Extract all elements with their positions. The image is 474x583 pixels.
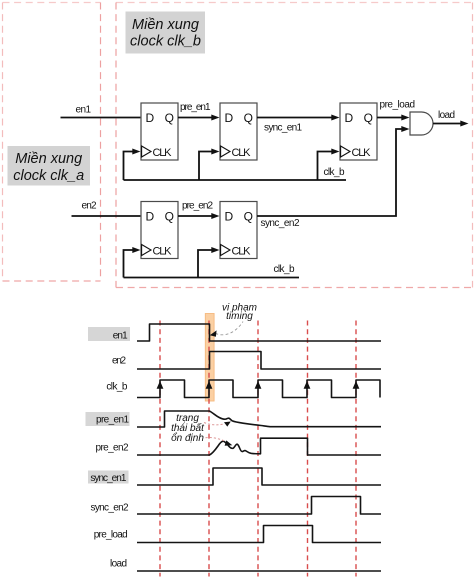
svg-text:ổn định: ổn định [171, 432, 204, 444]
svg-text:pre_en1: pre_en1 [96, 414, 129, 425]
svg-text:clk_b: clk_b [324, 167, 345, 178]
wire sync_en1 FF2.Q to FF3.D [257, 115, 340, 121]
annotation arrow to en1 violation [210, 322, 243, 337]
D flip-flop FF1 [141, 103, 178, 160]
timing waveform en1 [137, 324, 381, 341]
timing waveform load [137, 570, 381, 572]
svg-text:clk_b: clk_b [274, 264, 295, 275]
timing grid dashed line 3 [257, 321, 259, 577]
clock wire clk_b row2 to FF4.CLK [124, 247, 141, 278]
wire pre_en2 FF4.Q to FF5.D [178, 213, 220, 219]
svg-text:Miền xung: Miền xung [132, 17, 199, 33]
annotation vi pham timing [222, 302, 257, 322]
clock bus clk_b row1 [124, 179, 347, 181]
clk_b rising edge arrow 5 [353, 381, 360, 389]
svg-text:en2: en2 [82, 201, 97, 212]
timing grid dashed line 1 [159, 321, 161, 577]
clock domain region box clk_b (dashed) [116, 3, 473, 288]
timing waveform sync_en1 [137, 468, 381, 485]
timing waveform clk_b [137, 380, 380, 398]
svg-text:pre_load: pre_load [380, 100, 416, 111]
svg-text:load: load [110, 559, 127, 570]
wire pre_en1 FF1.Q to FF2.D [178, 115, 220, 121]
svg-text:clock clk_a: clock clk_a [13, 168, 84, 184]
label: Mien xung clock clk_b [126, 12, 206, 54]
timing label bg en1 [88, 327, 130, 341]
svg-text:en1: en1 [113, 330, 128, 341]
svg-text:timing: timing [226, 311, 253, 322]
svg-text:sync_en2: sync_en2 [261, 218, 300, 229]
wire en1 into FF1.D [61, 117, 141, 119]
timing violation highlight bar [205, 314, 214, 402]
clk_b rising edge arrow 3 [255, 381, 262, 389]
D flip-flop FF5 [220, 202, 257, 259]
svg-text:Miền xung: Miền xung [15, 151, 82, 167]
wire pre_load FF3.Q to AND gate [377, 115, 410, 121]
svg-text:clock clk_b: clock clk_b [130, 34, 201, 50]
clock wire clk_b row1 to FF1.CLK [124, 149, 141, 181]
svg-text:pre_en1: pre_en1 [180, 102, 211, 113]
label: Mien xung clock clk_a [8, 146, 91, 186]
annotation arrow to pre_en2 metastable region [206, 437, 233, 445]
timing label bg pre_en1 [86, 412, 130, 426]
D flip-flop FF4 [141, 202, 178, 259]
svg-text:clk_b: clk_b [106, 381, 127, 392]
timing grid dashed line 5 [355, 321, 357, 577]
svg-text:sync_en1: sync_en1 [90, 473, 126, 484]
timing waveform sync_en2 [137, 497, 381, 515]
svg-text:en1: en1 [76, 105, 92, 116]
clock wire clk_b row1 to FF3.CLK [318, 149, 340, 181]
clk_b rising edge arrow 2 [206, 381, 213, 389]
svg-text:en2: en2 [112, 355, 126, 366]
timing waveform en2 [137, 352, 381, 370]
timing grid dashed line 4 [307, 321, 309, 577]
and-gate U1 [410, 112, 433, 135]
timing waveform pre_en1 (metastable decay) [137, 411, 381, 427]
wire load output of AND gate [433, 121, 469, 127]
wire en2 into FF4.D [72, 215, 141, 217]
clock domain region box clk_a (dashed) [3, 3, 101, 282]
svg-text:pre_en2: pre_en2 [182, 200, 213, 211]
annotation trang thai bat on dinh [171, 413, 205, 444]
timing grid dashed line 2 [208, 321, 210, 577]
timing waveform pre_load [137, 526, 381, 543]
timing waveform pre_en2 (metastable humps) [137, 438, 381, 455]
annotation arrow to pre_en1 metastable region [204, 422, 231, 427]
clk_b rising edge arrow 1 [157, 381, 164, 389]
clk_b rising edge arrow 4 [304, 381, 311, 389]
clock bus clk_b row2 [124, 277, 300, 279]
svg-text:pre_load: pre_load [94, 529, 128, 540]
D flip-flop FF2 [220, 103, 257, 160]
clock wire clk_b row2 to FF5.CLK [198, 247, 220, 278]
svg-text:sync_en2: sync_en2 [91, 503, 129, 514]
timing label bg sync_en1 [88, 471, 129, 484]
svg-text:pre_en2: pre_en2 [96, 443, 129, 454]
D flip-flop FF3 [340, 103, 377, 160]
clock wire clk_b row1 to FF2.CLK [199, 149, 220, 181]
svg-text:sync_en1: sync_en1 [264, 122, 302, 133]
svg-text:load: load [438, 110, 455, 121]
wire sync_en2 FF5.Q to AND gate lower input [257, 126, 410, 216]
